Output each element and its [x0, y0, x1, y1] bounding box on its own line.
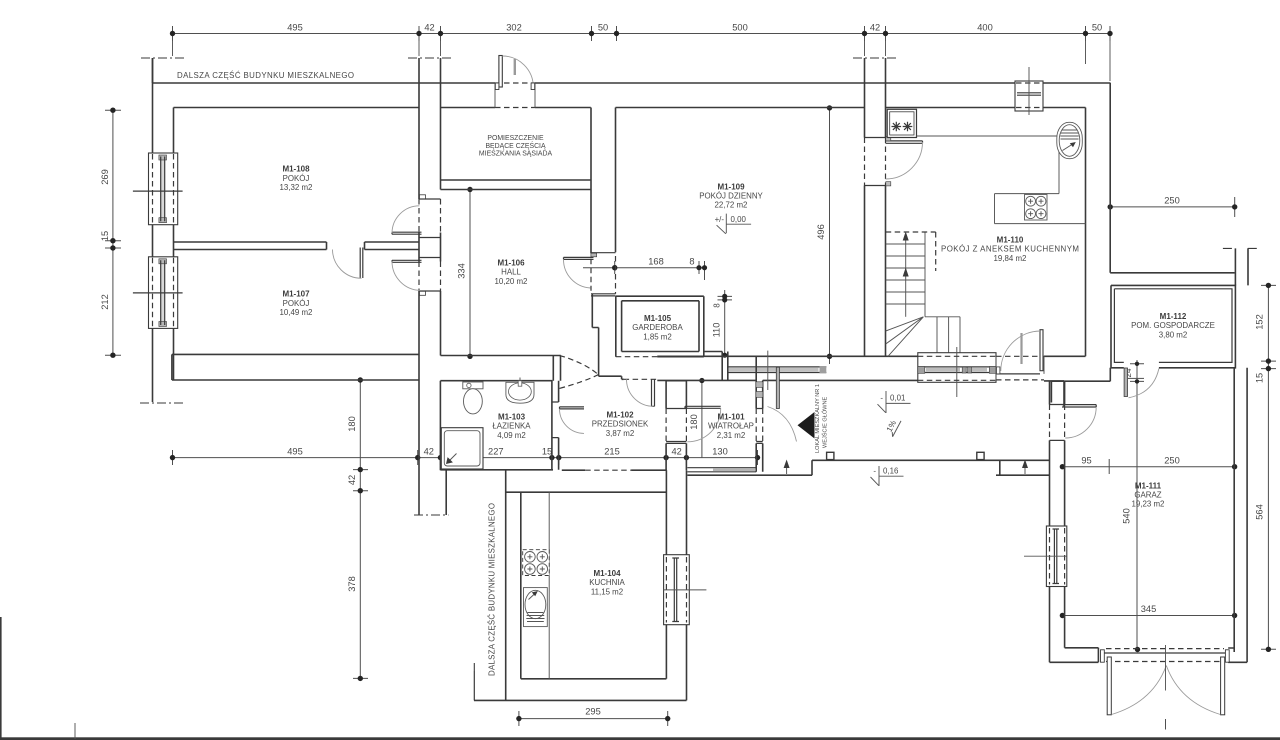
svg-text:15: 15 — [542, 447, 552, 457]
svg-text:95: 95 — [1081, 456, 1091, 466]
south wall of M1-109 / niche — [657, 352, 1085, 381]
svg-text:152: 152 — [1255, 314, 1265, 330]
svg-text:13,32 m2: 13,32 m2 — [280, 183, 313, 192]
border tick — [74, 723, 76, 739]
entrance door leaf and swing — [768, 367, 797, 441]
vertical dim 496 in living room — [816, 105, 832, 364]
svg-text:3,80 m2: 3,80 m2 — [1159, 330, 1188, 339]
door in top wall (to neighbour part) leaf and arc — [495, 56, 534, 90]
svg-text:495: 495 — [287, 447, 303, 457]
svg-text:8: 8 — [689, 257, 694, 267]
entrance arrow triangle — [798, 412, 815, 439]
svg-text:HALL: HALL — [501, 268, 521, 277]
svg-text:345: 345 — [1141, 604, 1157, 614]
window in left wall (room M1-108) — [133, 153, 183, 225]
M1-112 outer box — [1111, 285, 1235, 367]
garage dim 345 — [1060, 604, 1238, 618]
room label M1-105 — [632, 314, 683, 341]
garage dim 540 vertical — [1122, 378, 1145, 652]
dim 180 wiatrolap — [689, 378, 705, 458]
kitchen stove — [523, 550, 550, 576]
kitchen west wall — [506, 470, 521, 700]
level mark -0,16 corridor — [871, 466, 904, 486]
svg-text:M1-104: M1-104 — [593, 569, 621, 578]
svg-text:50: 50 — [1092, 23, 1102, 33]
kitchen top wall — [506, 470, 667, 492]
door hall to M1-108 — [392, 206, 422, 234]
dim 8 / 110 niche — [712, 290, 733, 358]
room label M1-101 — [708, 413, 754, 440]
room label M1-109 — [699, 182, 763, 209]
top exterior wall outer line y83 — [153, 82, 1111, 84]
svg-text:1,85 m2: 1,85 m2 — [643, 332, 672, 341]
svg-text:GARAZ: GARAZ — [1134, 491, 1161, 500]
svg-text:11,15 m2: 11,15 m2 — [591, 587, 623, 596]
left exterior wall — [140, 58, 183, 403]
window in top wall (M1-110 kitchen area) — [1015, 67, 1043, 115]
bathroom door — [560, 407, 585, 434]
left dimension chain 269/15/212 — [100, 108, 121, 358]
double-action door hall/przedsionek — [560, 355, 599, 388]
hall bottom wall — [441, 356, 561, 381]
svg-text:4,09 m2: 4,09 m2 — [497, 431, 526, 440]
svg-text:302: 302 — [506, 23, 522, 33]
svg-text:168: 168 — [648, 257, 664, 267]
entrance label (rotated) — [815, 384, 829, 453]
door to garderoba passage — [627, 379, 655, 406]
svg-text:GARDEROBA: GARDEROBA — [632, 323, 683, 332]
svg-text:212: 212 — [100, 294, 110, 310]
neighbour room (POMIESZCZENIE) right wall and bottom — [441, 108, 616, 254]
top neighbour-boundary dash-dot caps y58 — [141, 57, 897, 59]
svg-text:334: 334 — [457, 263, 467, 279]
svg-text:564: 564 — [1255, 504, 1265, 520]
wiatrolap south window sill — [687, 468, 757, 476]
svg-text:DALSZA CZĘŚĆ BUDYNKU MIESZKALN: DALSZA CZĘŚĆ BUDYNKU MIESZKALNEGO — [177, 71, 354, 80]
kitchen dim 295 — [516, 707, 670, 727]
kitchen east wall with window — [666, 470, 686, 700]
svg-text:M1-106: M1-106 — [497, 259, 525, 268]
room label M1-106 — [495, 259, 528, 286]
svg-text:-: - — [873, 467, 876, 476]
svg-text:180: 180 — [689, 414, 699, 430]
door przedsionek to wiatrolap — [685, 406, 721, 442]
stove in M1-110 — [1025, 195, 1048, 221]
room label M1-111 — [1132, 482, 1165, 509]
neighbour room label — [479, 135, 553, 158]
svg-text:0,01: 0,01 — [890, 394, 905, 403]
svg-text:378: 378 — [347, 576, 357, 592]
room label M1-107 — [280, 290, 313, 318]
south wall lower edge — [657, 380, 1064, 407]
svg-text:15: 15 — [100, 231, 110, 241]
room label M1-102 — [592, 411, 649, 438]
svg-text:PRZEDSIONEK: PRZEDSIONEK — [592, 420, 649, 429]
wall stub above garage — [1223, 248, 1259, 285]
garage east wall — [1234, 368, 1247, 663]
przedsionek / wiatrolap separating wall with door — [666, 381, 686, 470]
SECTION: walls — [133, 56, 1259, 715]
svg-text:19,84 m2: 19,84 m2 — [994, 254, 1027, 263]
bottom dimension chain 495/42/227/15/215/42/130 — [170, 447, 760, 466]
kitchen sink in M1-110 — [1057, 122, 1083, 158]
svg-text:M1-105: M1-105 — [644, 314, 672, 323]
svg-text:M1-110: M1-110 — [997, 235, 1024, 244]
svg-text:+/-: +/- — [715, 215, 725, 224]
M1-112 door — [1124, 368, 1159, 398]
svg-text:ŁAZIENKA: ŁAZIENKA — [492, 422, 531, 431]
svg-text:POKÓJ: POKÓJ — [283, 174, 310, 183]
garage window — [1024, 526, 1067, 587]
svg-text:3,87 m2: 3,87 m2 — [606, 429, 635, 438]
svg-text:0,16: 0,16 — [883, 467, 899, 476]
kitchen counter in M1-110 — [917, 136, 1086, 224]
svg-text:0,00: 0,00 — [731, 215, 747, 224]
level mark -0,01 corridor — [878, 391, 911, 413]
top exterior wall inner line y107.5 — [174, 107, 1086, 109]
door between M1-108 and M1-107 — [333, 248, 363, 279]
SECTION: texts — [177, 71, 1215, 676]
przedsionek top wall and garderoba passage opening — [599, 376, 658, 379]
svg-text:215: 215 — [604, 447, 620, 457]
svg-text:500: 500 — [732, 23, 748, 33]
svg-text:42: 42 — [870, 23, 880, 33]
hall east wall with jog — [592, 294, 598, 376]
svg-text:19,23 m2: 19,23 m2 — [1132, 500, 1165, 509]
slope mark 1% — [883, 416, 901, 437]
svg-text:250: 250 — [1164, 456, 1180, 466]
neighbour part label top — [177, 71, 354, 80]
kitchen counter line — [548, 492, 550, 679]
svg-text:130: 130 — [712, 447, 728, 457]
svg-text:10,49 m2: 10,49 m2 — [280, 308, 313, 317]
bottom page border line — [0, 737, 1280, 740]
dim 250 right wing top — [1108, 196, 1238, 218]
top dimension labels — [287, 23, 1102, 33]
page left border — [0, 617, 2, 740]
right wing outer walls — [1086, 83, 1235, 356]
svg-text:2,31 m2: 2,31 m2 — [717, 431, 746, 440]
room label M1-112 — [1131, 312, 1215, 339]
room label M1-110 — [941, 235, 1079, 262]
vertical chain 180/42/378 at x360 — [347, 377, 368, 681]
top dimension chain line — [170, 26, 1113, 81]
svg-text:DALSZA CZĘŚĆ BUDYNKU MIESZKALN: DALSZA CZĘŚĆ BUDYNKU MIESZKALNEGO — [488, 503, 497, 676]
fridge unit in M1-110 — [887, 109, 916, 137]
svg-text:POKÓJ Z ANEKSEM KUCHENNYM: POKÓJ Z ANEKSEM KUCHENNYM — [941, 245, 1079, 254]
neighbour part label left bottom (rotated) — [488, 503, 497, 676]
corridor lower edge and steps — [758, 452, 1050, 475]
garage dim 95 / 250 — [1060, 456, 1238, 475]
svg-text:269: 269 — [100, 169, 110, 185]
lobby openings between hall / M1-109 — [591, 253, 616, 296]
door M1-109 to M1-110 — [886, 137, 923, 186]
room label M1-103 — [492, 413, 531, 440]
garage west wall with door and window — [1050, 368, 1111, 663]
svg-text:POM. GOSPODARCZE: POM. GOSPODARCZE — [1131, 321, 1215, 330]
svg-text:M1-108: M1-108 — [282, 165, 310, 174]
door in M1-110 south wall — [996, 330, 1044, 381]
bathroom walls — [440, 381, 558, 470]
svg-text:M1-107: M1-107 — [282, 290, 310, 299]
svg-text:M1-111: M1-111 — [1135, 482, 1162, 491]
room label M1-104 — [589, 569, 625, 596]
door hall to M1-109 lobby — [563, 257, 593, 288]
svg-text:POKÓJ: POKÓJ — [283, 299, 310, 308]
wall columns rising to boundary — [153, 58, 886, 83]
svg-text:KUCHNIA: KUCHNIA — [589, 578, 625, 587]
svg-text:M1-112: M1-112 — [1160, 312, 1187, 321]
top wall door opening dashes — [495, 83, 535, 108]
svg-text:42: 42 — [424, 23, 434, 33]
svg-text:10,20 m2: 10,20 m2 — [495, 277, 528, 286]
SECTION: rooms fixtures — [0, 0, 1, 1]
svg-text:495: 495 — [287, 23, 303, 33]
svg-text:250: 250 — [1164, 196, 1180, 206]
svg-text:M1-102: M1-102 — [606, 411, 634, 420]
M1-107 bottom wall — [172, 354, 419, 380]
vertical dim 334 in hall — [457, 187, 473, 359]
room label M1-108 — [280, 165, 313, 193]
kitchen sink — [524, 588, 548, 627]
svg-text:295: 295 — [585, 707, 601, 717]
right vertical chain 152/15/564 — [1255, 283, 1277, 652]
shower — [441, 428, 483, 469]
svg-text:WIATROŁAP: WIATROŁAP — [708, 422, 754, 431]
spine wall x419/x440.5 — [414, 83, 449, 515]
svg-text:42: 42 — [424, 447, 434, 457]
svg-text:8: 8 — [713, 303, 722, 308]
svg-text:M1-109: M1-109 — [717, 182, 745, 191]
washbasin — [506, 378, 534, 404]
svg-text:-: - — [880, 394, 883, 403]
svg-text:540: 540 — [1122, 508, 1132, 524]
svg-text:110: 110 — [712, 323, 722, 338]
stairs in M1-110 — [886, 232, 960, 357]
svg-text:50: 50 — [598, 23, 608, 33]
door corridor to garage — [1062, 405, 1096, 438]
window in left wall (room M1-107) — [133, 257, 183, 329]
glazed strip in south wall — [727, 351, 826, 390]
svg-text:POMIESZCZENIE: POMIESZCZENIE — [487, 135, 544, 142]
svg-text:42: 42 — [347, 475, 357, 485]
svg-text:WEJŚCIE GŁÓWNE: WEJŚCIE GŁÓWNE — [821, 396, 829, 448]
svg-text:POKÓJ DZIENNY: POKÓJ DZIENNY — [699, 192, 763, 201]
level mark 0,00 in M1-109 — [715, 214, 752, 234]
svg-text:15: 15 — [1255, 373, 1265, 383]
kitchen window — [664, 555, 707, 625]
garderoba walls — [616, 296, 704, 357]
garage centre tick at bottom border — [1165, 719, 1167, 730]
dim 24 store door — [1124, 360, 1144, 384]
svg-text:22,72 m2: 22,72 m2 — [715, 201, 748, 210]
garage gate leaves and swings — [1107, 645, 1225, 715]
M1-109 east wall / M1-110 west wall with door — [865, 83, 886, 356]
dim 168 / 8 garderoba — [583, 257, 707, 281]
wiatrolap east wall with entrance — [756, 356, 763, 472]
svg-text:496: 496 — [816, 224, 826, 240]
garage south wall and gate — [1050, 648, 1248, 663]
partition between M1-108 and M1-107 — [174, 242, 420, 250]
svg-text:42: 42 — [672, 447, 682, 457]
svg-text:BĘDĄCE CZĘŚCIĄ: BĘDĄCE CZĘŚCIĄ — [485, 141, 546, 150]
svg-text:LOKAL MIESZKALNY NR 1: LOKAL MIESZKALNY NR 1 — [815, 384, 821, 453]
window in M1-110 south wall — [918, 347, 1044, 397]
kitchen south wall — [474, 663, 687, 700]
door hall to M1-107 — [392, 260, 422, 290]
toilet — [463, 382, 483, 414]
svg-text:M1-101: M1-101 — [717, 413, 745, 422]
svg-text:227: 227 — [488, 447, 504, 457]
svg-text:400: 400 — [977, 23, 993, 33]
svg-text:M1-103: M1-103 — [498, 413, 526, 422]
svg-text:180: 180 — [347, 416, 357, 432]
svg-text:MIESZKANIA SĄSIADA: MIESZKANIA SĄSIADA — [479, 151, 553, 158]
